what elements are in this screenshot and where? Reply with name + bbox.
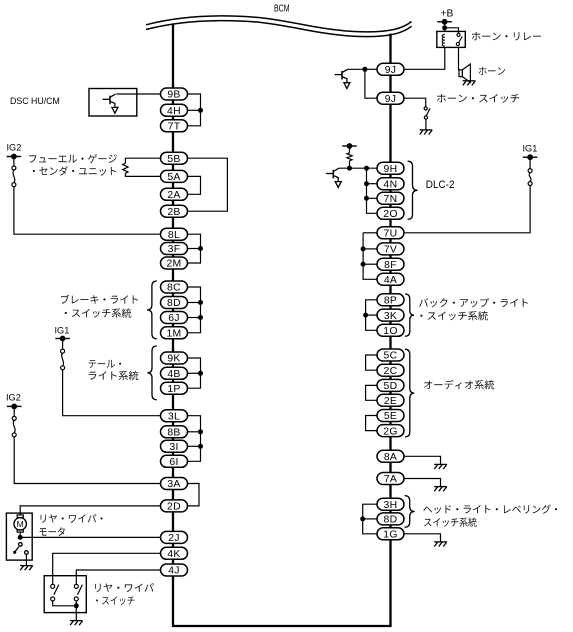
- connector pin 8F (right): [377, 258, 404, 271]
- IG2 switch (lower left): [12, 416, 16, 436]
- connector pin 4A (right): [377, 273, 404, 286]
- BCM module boundary (wavy line): [146, 16, 412, 37]
- IG2 terminal (upper left): [7, 154, 22, 160]
- connector pin 2O (right): [377, 207, 404, 220]
- svg-text:2M: 2M: [166, 259, 181, 270]
- svg-text:4B: 4B: [167, 369, 180, 380]
- wire park switch to ground: [25, 554, 27, 565]
- connector pin 2C (right): [377, 364, 404, 377]
- wire resistor to 9H node: [349, 161, 351, 168]
- connector pin 1G (right): [377, 528, 404, 541]
- wire 7N branch: [367, 197, 378, 199]
- wire 6J branch: [188, 317, 201, 319]
- svg-text:3A: 3A: [167, 479, 180, 490]
- ground (horn): [463, 81, 476, 86]
- label horn switch: [437, 94, 519, 103]
- connector pin 5C (right): [377, 349, 404, 362]
- connector pin 3I (left): [161, 440, 188, 453]
- IG2 terminal (lower left): [7, 404, 22, 410]
- label back-up light line1: [419, 298, 528, 307]
- junction dot 6J: [198, 315, 203, 320]
- horn switch: [424, 107, 430, 119]
- connector pin 5B (left): [161, 152, 188, 165]
- horn relay box: [437, 31, 466, 47]
- connector pin 6I (left): [161, 455, 188, 468]
- rear wiper switch box: [44, 576, 86, 613]
- svg-text:3F: 3F: [168, 244, 181, 255]
- connector pin 2B (left): [161, 205, 188, 218]
- svg-text:M: M: [17, 519, 24, 529]
- connector pin 2D (left): [161, 500, 188, 513]
- junction dot 3I: [198, 444, 203, 449]
- wire 9J pair link: [365, 69, 377, 98]
- transistor in DSC HU/CM: [103, 94, 118, 113]
- connector pin 7A (right): [377, 473, 404, 486]
- brace headlight leveling group: [405, 496, 415, 528]
- wire 8F branch: [363, 263, 377, 265]
- wire 2D to rear wiper motor: [20, 506, 160, 515]
- wire 4J to rear wiper switch: [76, 570, 160, 584]
- svg-text:2E: 2E: [384, 396, 397, 407]
- connector pin 1P (left): [161, 382, 188, 395]
- wire relay contact to horn: [458, 47, 460, 70]
- svg-text:IG2: IG2: [6, 392, 21, 402]
- junction dot switch common: [74, 603, 79, 608]
- connector pin 8B (left): [161, 426, 188, 439]
- svg-text:7V: 7V: [384, 245, 397, 256]
- wire 4K to rear wiper switch: [53, 553, 161, 584]
- resistor (9H pull-up): [347, 153, 352, 161]
- junction dot motor output: [18, 535, 23, 540]
- connector pin 4B (left): [161, 367, 188, 380]
- label rear wiper switch line2: [96, 596, 134, 605]
- wire 3H-1G group: [363, 504, 377, 534]
- power terminal (9H pull-up): [342, 143, 357, 149]
- wire +B to relay coil: [444, 22, 446, 32]
- wire IG2 switch to 8L: [14, 187, 161, 235]
- label headlight leveling line1: [423, 505, 557, 514]
- connector pin 1M (left): [161, 327, 188, 340]
- ground (rear wiper motor): [20, 566, 33, 571]
- wire IG1 right to switch: [529, 157, 531, 168]
- svg-text:2J: 2J: [168, 533, 180, 544]
- svg-text:8F: 8F: [384, 260, 397, 271]
- svg-text:3L: 3L: [168, 411, 180, 422]
- connector pin 2A (left): [161, 188, 188, 201]
- junction dot 7V: [361, 246, 366, 251]
- motor park switch: [13, 543, 28, 555]
- connector pin 5E (right): [377, 410, 404, 423]
- svg-text:4K: 4K: [167, 549, 180, 560]
- svg-text:BCM: BCM: [274, 3, 290, 14]
- svg-text:6J: 6J: [168, 313, 180, 324]
- wire 7A to ground: [404, 479, 441, 487]
- left bus wire: [172, 24, 174, 626]
- svg-text:3I: 3I: [169, 442, 178, 453]
- svg-text:IG1: IG1: [523, 144, 538, 154]
- svg-text:DSC HU/CM: DSC HU/CM: [10, 96, 60, 106]
- connector pin 4H (left): [161, 104, 188, 117]
- svg-text:3K: 3K: [384, 311, 397, 322]
- connector pin 3H (right): [377, 498, 404, 511]
- brace brake-light switch group: [147, 281, 157, 339]
- label fuel gauge line1: [29, 154, 117, 163]
- ground (horn switch): [420, 130, 433, 135]
- transistor Q1 (9J driver): [335, 69, 350, 88]
- junction dot 3K: [363, 313, 368, 318]
- wire 9J lower to horn switch: [404, 98, 426, 107]
- label rear wiper switch line1: [95, 583, 154, 592]
- junction dot 4B: [198, 371, 203, 376]
- connector pin 2M (left): [161, 257, 188, 270]
- wire 3K branch: [366, 314, 377, 316]
- label brake light line2: [65, 308, 132, 317]
- wire 9J to transistor: [348, 68, 365, 70]
- wire IG1 to 7U: [404, 186, 530, 233]
- svg-text:8D: 8D: [167, 298, 181, 309]
- rear wiper switch contact 1: [51, 584, 59, 601]
- wire 1G to ground: [404, 534, 441, 542]
- connector pin 6J (left): [161, 312, 188, 325]
- wire 3I branch: [188, 445, 201, 447]
- svg-text:8C: 8C: [167, 283, 181, 294]
- connector pin 8D (left): [161, 297, 188, 310]
- ground (1G): [434, 542, 447, 547]
- wire 5C-2C loop: [366, 355, 377, 370]
- IG1 terminal (left): [55, 336, 70, 342]
- wire 5D-2E loop: [366, 385, 377, 400]
- label back-up light line2: [420, 311, 488, 320]
- wire 8C-1M loop: [188, 287, 201, 333]
- wire IG2 switch to 3A: [14, 437, 160, 484]
- IG2 switch (upper left): [12, 166, 16, 187]
- connector pin 7V (right): [377, 243, 404, 256]
- connector pin 2E (right): [377, 394, 404, 407]
- brace tail-light group: [147, 346, 157, 400]
- svg-text:8A: 8A: [384, 452, 397, 463]
- wire 4H branch: [188, 109, 201, 111]
- svg-text:2A: 2A: [167, 190, 180, 201]
- svg-text:9J: 9J: [385, 94, 397, 105]
- wire +B to relay contact: [445, 28, 459, 33]
- junction dot 4N: [364, 181, 369, 186]
- label horn: [479, 67, 505, 75]
- ground (rear wiper switch): [70, 621, 83, 626]
- svg-text:1O: 1O: [383, 326, 397, 337]
- svg-text:9K: 9K: [167, 354, 180, 365]
- wire IG1 switch to 3L: [63, 370, 161, 416]
- svg-text:+B: +B: [441, 9, 454, 20]
- svg-text:5D: 5D: [384, 381, 398, 392]
- svg-text:7N: 7N: [384, 194, 398, 205]
- wire IG2 to switch: [13, 157, 15, 167]
- label horn relay: [472, 32, 541, 40]
- ground (7A): [434, 487, 447, 492]
- svg-text:5C: 5C: [384, 351, 398, 362]
- wire switch to ground: [75, 601, 77, 621]
- ground (8A): [434, 464, 447, 469]
- junction dot resistor-9H: [347, 166, 352, 171]
- junction dot 8D (right): [360, 516, 365, 521]
- label headlight leveling line2: [424, 518, 477, 527]
- connector pin 2J (left): [161, 531, 188, 544]
- wire IG2 to switch (lower): [13, 406, 15, 416]
- +B terminal: [437, 19, 452, 25]
- rear wiper motor M symbol: [14, 515, 26, 532]
- junction dot 3F: [198, 246, 203, 251]
- wire 4B branch: [188, 372, 201, 374]
- connector pin 5A (left): [161, 170, 188, 183]
- svg-text:8P: 8P: [384, 296, 397, 307]
- svg-text:2O: 2O: [383, 209, 397, 220]
- connector pin 2G (right): [377, 425, 404, 438]
- wire motor to junction: [19, 532, 21, 537]
- wire 9K-1P loop: [188, 358, 201, 388]
- wire switch common link: [53, 601, 77, 606]
- junction dot 8D: [198, 300, 203, 305]
- svg-text:8L: 8L: [168, 230, 180, 241]
- junction dot 4H: [198, 108, 203, 113]
- wire 7V branch: [363, 248, 377, 250]
- svg-text:1P: 1P: [167, 384, 180, 395]
- connector pin 8C (left): [161, 281, 188, 294]
- junction dot 9H branch: [364, 166, 369, 171]
- connector pin 9J (right): [377, 63, 404, 76]
- svg-text:6I: 6I: [169, 457, 178, 468]
- connector pin 8A (right): [377, 450, 404, 463]
- right bus wire: [389, 34, 391, 626]
- connector pin 4K (left): [161, 547, 188, 560]
- connector pin 3K (right): [377, 309, 404, 322]
- brace back-up-light group: [405, 294, 414, 336]
- svg-text:DLC-2: DLC-2: [426, 179, 455, 191]
- wire 9B-7T loop: [188, 94, 201, 126]
- connector pin 9H (right): [377, 162, 404, 175]
- horn relay coil: [442, 34, 445, 46]
- svg-text:3H: 3H: [384, 500, 398, 511]
- svg-text:5E: 5E: [384, 411, 397, 422]
- wire power to resistor: [349, 146, 351, 153]
- junction dot 8B: [198, 429, 203, 434]
- svg-text:8B: 8B: [167, 428, 180, 439]
- svg-text:7U: 7U: [384, 229, 398, 240]
- IG1 switch (left): [61, 349, 65, 370]
- svg-text:8D: 8D: [384, 515, 398, 526]
- bottom interconnect wire: [172, 625, 392, 627]
- connector pin 8L (left): [161, 228, 188, 241]
- connector pin 4J (left): [161, 564, 188, 577]
- connector pin 7U (right): [377, 227, 404, 240]
- connector pin 3L (left): [161, 410, 188, 423]
- rear wiper motor box: [6, 513, 32, 560]
- svg-text:9B: 9B: [167, 90, 180, 101]
- svg-text:IG2: IG2: [7, 142, 22, 152]
- brace audio group: [405, 349, 414, 437]
- junction dot 8F: [361, 262, 366, 267]
- wire 3L-6I loop: [188, 416, 201, 462]
- junction dot +B split: [442, 25, 447, 30]
- rear wiper switch contact 2: [74, 584, 82, 601]
- DSC HU/CM box: [89, 89, 137, 117]
- junction dot 9J pair: [362, 67, 367, 72]
- fuel gauge sender resistor: [123, 163, 128, 173]
- wire 5A-2A loop: [188, 176, 201, 194]
- svg-text:5A: 5A: [167, 172, 180, 183]
- connector pin 4N (right): [377, 178, 404, 191]
- wire 5E-2G loop: [366, 416, 377, 431]
- wire 8D branch (right): [363, 518, 377, 520]
- wire 3F branch: [188, 248, 201, 250]
- wire 9B to DSC HU/CM: [116, 93, 160, 95]
- label rear wiper motor line1: [41, 514, 103, 523]
- wire 8D branch: [188, 302, 201, 304]
- svg-text:5B: 5B: [167, 154, 180, 165]
- svg-text:4N: 4N: [384, 179, 398, 190]
- connector pin 9B (left): [161, 88, 188, 101]
- label audio system: [424, 380, 494, 390]
- wire motor junction to 2J: [20, 536, 160, 538]
- svg-text:2C: 2C: [384, 366, 398, 377]
- svg-text:2G: 2G: [383, 426, 397, 437]
- wire 4N branch: [367, 183, 378, 185]
- wire relay coil to 9J: [404, 47, 445, 69]
- connector pin 5D (right): [377, 379, 404, 392]
- horn relay contact: [456, 33, 462, 45]
- horn speaker: [459, 64, 470, 82]
- svg-text:4H: 4H: [167, 106, 181, 117]
- svg-text:9J: 9J: [385, 65, 397, 76]
- svg-text:4A: 4A: [384, 275, 397, 286]
- wire IG1 to switch: [62, 339, 64, 350]
- wire 8A to ground: [404, 456, 441, 464]
- label tail light line2: [89, 371, 139, 380]
- IG1 switch (right): [528, 169, 532, 186]
- IG1 terminal (right): [523, 154, 538, 160]
- wire 5B-2B loop: [188, 158, 228, 211]
- svg-text:9H: 9H: [384, 164, 398, 175]
- connector pin 9K (left): [161, 352, 188, 365]
- brace DLC-2 group: [408, 161, 418, 219]
- connector pin 8P (right): [377, 294, 404, 307]
- svg-text:1M: 1M: [166, 329, 181, 340]
- transistor Q2 (9H driver): [326, 168, 341, 187]
- svg-text:1G: 1G: [383, 530, 397, 541]
- svg-text:2B: 2B: [167, 207, 180, 218]
- wire 7U-4A group vertical: [363, 233, 377, 279]
- label brake light line1: [61, 295, 138, 304]
- connector pin 3F (left): [161, 243, 188, 256]
- svg-text:2D: 2D: [167, 502, 181, 513]
- svg-text:4J: 4J: [168, 566, 180, 577]
- connector pin 1O (right): [377, 324, 404, 337]
- junction dot 7N: [364, 196, 369, 201]
- svg-text:IG1: IG1: [55, 326, 70, 336]
- label fuel gauge line2: [33, 166, 116, 175]
- wire DLC-2 group vertical: [367, 168, 378, 213]
- connector pin 7T (left): [161, 120, 188, 133]
- wire horn switch to ground: [425, 119, 427, 130]
- wire 9H feed: [339, 167, 377, 169]
- svg-text:7A: 7A: [384, 474, 397, 485]
- wire 5B to fuel sender: [125, 158, 160, 163]
- connector pin 7N (right): [377, 192, 404, 205]
- svg-text:7T: 7T: [168, 122, 181, 133]
- label rear wiper motor line2: [39, 527, 64, 536]
- label tail light line1: [89, 360, 121, 368]
- connector pin 3A (left): [161, 478, 188, 491]
- wire 8P-1O group: [366, 300, 377, 331]
- wire fuel sender to 5A: [125, 173, 160, 176]
- wire 7U branch: [363, 232, 377, 234]
- connector pin 8D (right): [377, 513, 404, 526]
- wire dot to 9J upper: [365, 68, 377, 70]
- wire 8B branch: [188, 431, 201, 433]
- wire 3A-2D loop: [188, 484, 200, 506]
- wire 8L-2M loop: [188, 234, 201, 263]
- connector pin 9J (right): [377, 92, 404, 105]
